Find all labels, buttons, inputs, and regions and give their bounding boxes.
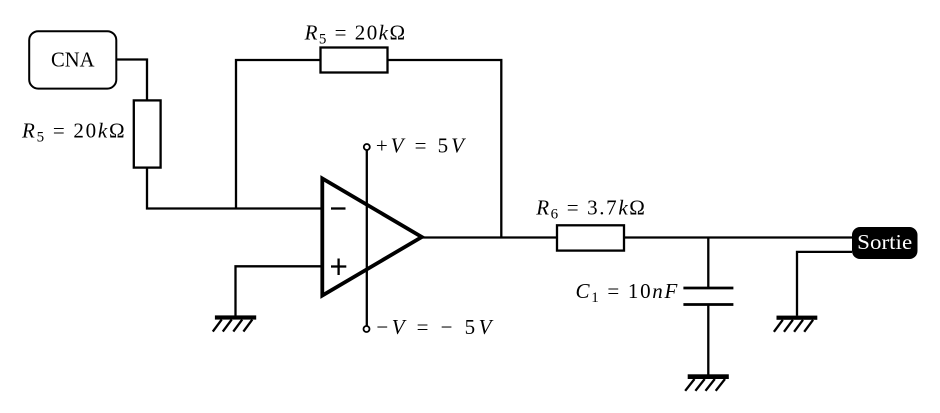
resistor R5 feedback (horizontal) — [321, 48, 388, 73]
ground G2 (below C1) — [685, 374, 729, 391]
ground G3 (Sortie reference) — [774, 316, 817, 332]
ground G1 (op-amp + input) — [213, 315, 256, 331]
svg-text:Sortie: Sortie — [857, 230, 912, 254]
wire CNA to R5 input resistor — [116, 60, 147, 101]
supply wire +V to -V through op-amp — [366, 150, 368, 326]
op-amp U1 — [322, 179, 422, 296]
svg-text:CNA: CNA — [51, 48, 95, 72]
wire feedback left vertical — [236, 60, 321, 209]
wire non-inverting input to ground — [236, 266, 323, 315]
wire Sortie to ground — [797, 252, 852, 316]
wire feedback right vertical to output node — [388, 60, 502, 238]
resistor R5 input (vertical) — [134, 100, 161, 167]
resistor R6 — [557, 225, 624, 250]
CNA box — [29, 31, 116, 88]
wire capacitor to ground — [707, 305, 709, 375]
+V terminal — [364, 144, 370, 150]
-V terminal — [364, 326, 370, 332]
wire op-amp output to R6 — [422, 236, 557, 238]
Sortie output terminal — [852, 227, 918, 259]
wire node to capacitor C1 — [707, 238, 709, 289]
capacitor C1 — [683, 288, 733, 305]
wire R5 input to inverting node — [147, 168, 322, 209]
wire R6 to Sortie — [624, 236, 852, 238]
